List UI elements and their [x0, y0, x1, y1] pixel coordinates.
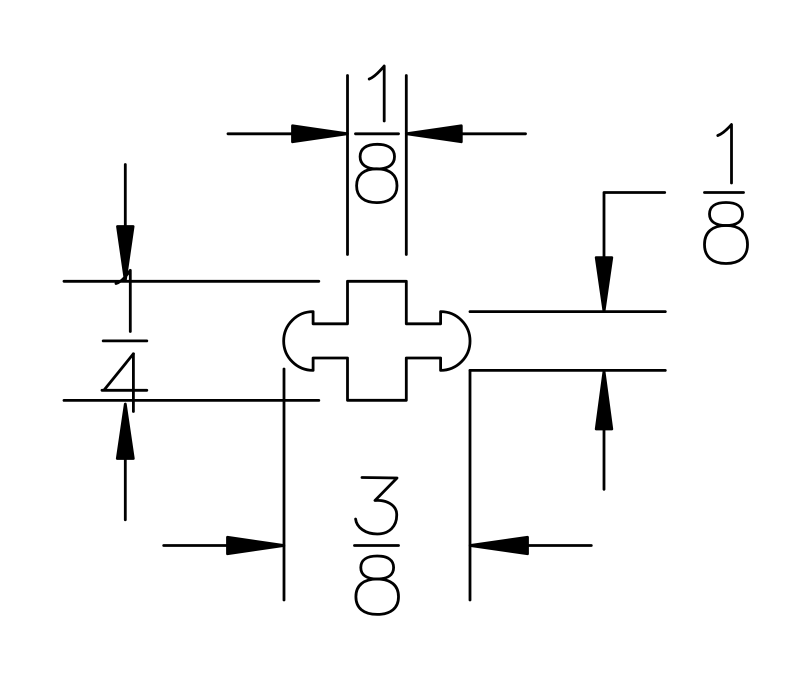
left dim up arrow	[117, 404, 133, 520]
left fraction numeral 4	[102, 354, 147, 412]
bottom dim line right with arrow	[470, 537, 591, 553]
cross profile outline	[284, 281, 470, 400]
bottom fraction numeral 8	[356, 556, 399, 614]
top dim line right with arrow	[406, 126, 525, 142]
right dim up arrow	[596, 371, 612, 489]
left dim down arrow	[118, 165, 134, 281]
top fraction numeral 8	[357, 144, 397, 202]
left fraction numeral 1	[116, 270, 130, 331]
right fraction numeral 1	[718, 125, 732, 184]
bottom dim extension line left	[283, 369, 286, 600]
top dim line left with arrow	[228, 126, 348, 142]
top dim extension line left	[346, 76, 349, 255]
right dim leader with down arrow	[596, 193, 665, 312]
right fraction numeral 8	[705, 203, 748, 264]
top dim extension line right	[405, 76, 408, 255]
right dim tangent line top	[470, 310, 665, 313]
bottom fraction bar	[355, 544, 399, 547]
right dim tangent line bottom	[470, 369, 665, 372]
bottom fraction numeral 3	[356, 478, 397, 535]
left dim extension line top	[64, 280, 319, 283]
left fraction bar	[103, 339, 147, 342]
left dim extension line bottom	[64, 399, 319, 402]
bottom dim line left with arrow	[164, 537, 284, 553]
top fraction numeral 1	[369, 66, 384, 121]
right fraction bar	[705, 191, 744, 194]
bottom dim extension line right	[469, 370, 472, 600]
top fraction bar	[356, 132, 399, 135]
